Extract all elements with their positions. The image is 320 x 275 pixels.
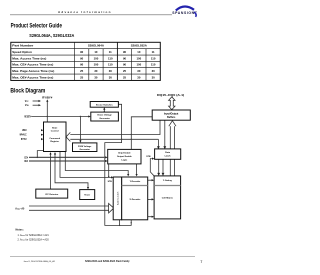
svg-text:110: 110 xyxy=(108,56,113,60)
svg-text:110: 110 xyxy=(151,63,156,67)
svg-text:PGM Voltage: PGM Voltage xyxy=(78,145,92,148)
svg-text:Chip Enable: Chip Enable xyxy=(118,153,131,155)
svg-text:90: 90 xyxy=(123,63,127,67)
svg-text:Register: Register xyxy=(50,140,59,143)
svg-text:Product Selector Guide: Product Selector Guide xyxy=(11,23,62,30)
svg-text:Block Diagram: Block Diagram xyxy=(10,87,45,94)
svg-text:30: 30 xyxy=(94,69,98,73)
svg-text:25: 25 xyxy=(80,69,84,73)
svg-text:State: State xyxy=(52,126,58,129)
svg-text:30: 30 xyxy=(109,75,113,79)
svg-text:Timer: Timer xyxy=(84,195,90,197)
svg-text:Output Enable: Output Enable xyxy=(117,155,133,158)
svg-text:S29GL064A, S29GL032A: S29GL064A, S29GL032A xyxy=(29,33,74,38)
svg-text:1. Amax for S29GL064A = A21: 1. Amax for S29GL064A = A21 xyxy=(18,234,50,237)
svg-text:Speed Option: Speed Option xyxy=(12,50,32,54)
svg-text:Buffers: Buffers xyxy=(167,116,176,119)
svg-text:Generator: Generator xyxy=(99,117,110,120)
svg-text:June 8, 2004 S29GL064A_00_A1: June 8, 2004 S29GL064A_00_A1 xyxy=(23,260,55,263)
svg-text:90: 90 xyxy=(80,63,84,67)
svg-text:OE#: OE# xyxy=(24,161,28,163)
svg-text:25: 25 xyxy=(80,75,84,79)
svg-text:Y-Decoder: Y-Decoder xyxy=(130,181,141,183)
svg-text:Amax–A0: Amax–A0 xyxy=(15,207,25,210)
svg-text:30: 30 xyxy=(152,75,156,79)
svg-text:BYTE#: BYTE# xyxy=(21,139,27,141)
svg-text:RY/BY#: RY/BY# xyxy=(42,97,53,99)
svg-text:10: 10 xyxy=(137,50,141,54)
svg-text:100: 100 xyxy=(137,63,142,67)
svg-text:S29GL032A: S29GL032A xyxy=(131,44,148,48)
svg-text:30: 30 xyxy=(137,75,141,79)
svg-text:Max. Page Access Time (ns): Max. Page Access Time (ns) xyxy=(12,69,54,73)
svg-text:Generator: Generator xyxy=(79,148,90,151)
svg-text:11: 11 xyxy=(152,50,155,54)
svg-text:90: 90 xyxy=(123,56,127,60)
svg-text:Address Latch: Address Latch xyxy=(116,191,119,205)
svg-text:DQ15–DQ0 (A-1): DQ15–DQ0 (A-1) xyxy=(157,94,185,97)
svg-text:25: 25 xyxy=(123,69,127,73)
svg-text:RESET#: RESET# xyxy=(24,116,31,118)
svg-text:X-Decoder: X-Decoder xyxy=(130,199,141,201)
svg-text:Latch: Latch xyxy=(165,154,171,157)
svg-text:100: 100 xyxy=(94,63,99,67)
svg-text:STB: STB xyxy=(108,181,113,183)
svg-text:VSS: VSS xyxy=(25,105,29,107)
svg-text:Command: Command xyxy=(49,138,60,140)
svg-text:11: 11 xyxy=(109,50,112,54)
svg-text:Max. CE# Access Time (ns): Max. CE# Access Time (ns) xyxy=(12,63,53,67)
svg-text:Max. Access Time (ns): Max. Access Time (ns) xyxy=(12,56,46,60)
svg-text:WP#/ACC: WP#/ACC xyxy=(20,134,27,137)
svg-text:SPANSION: SPANSION xyxy=(172,11,194,15)
svg-text:Cell Matrix: Cell Matrix xyxy=(162,196,174,199)
svg-text:CE#: CE# xyxy=(24,157,28,159)
svg-text:110: 110 xyxy=(108,63,113,67)
svg-text:30: 30 xyxy=(109,69,113,73)
svg-text:Input/Output: Input/Output xyxy=(164,113,179,116)
svg-text:Control: Control xyxy=(51,130,59,133)
svg-text:110: 110 xyxy=(151,56,156,60)
svg-text:S29GL064A and S29GL032A Flash: S29GL064A and S29GL032A Flash Family xyxy=(85,260,130,263)
svg-text:Advance Information: Advance Information xyxy=(58,10,111,14)
svg-text:Notes:: Notes: xyxy=(16,228,24,232)
svg-text:25: 25 xyxy=(123,75,127,79)
svg-text:Part Number: Part Number xyxy=(12,44,34,48)
svg-text:S29GL064A: S29GL064A xyxy=(88,44,105,48)
svg-text:Y-Gating: Y-Gating xyxy=(163,179,173,182)
svg-text:2. Amax for S29GL032A = A20: 2. Amax for S29GL032A = A20 xyxy=(18,239,50,242)
svg-text:100: 100 xyxy=(94,56,99,60)
svg-text:Sector Switches: Sector Switches xyxy=(96,103,114,106)
svg-text:Erase Voltage: Erase Voltage xyxy=(97,114,112,117)
svg-text:10: 10 xyxy=(94,50,98,54)
svg-text:90: 90 xyxy=(80,50,84,54)
svg-text:Max. OE# Access Time (ns): Max. OE# Access Time (ns) xyxy=(12,75,53,79)
svg-text:100: 100 xyxy=(137,56,142,60)
svg-text:90: 90 xyxy=(80,56,84,60)
svg-text:7: 7 xyxy=(200,260,202,264)
svg-text:STB: STB xyxy=(146,156,151,158)
svg-text:30: 30 xyxy=(152,69,156,73)
svg-text:Logic: Logic xyxy=(121,159,128,161)
svg-text:30: 30 xyxy=(94,75,98,79)
svg-text:Data: Data xyxy=(165,151,171,154)
svg-text:30: 30 xyxy=(137,69,141,73)
svg-text:90: 90 xyxy=(123,50,127,54)
svg-text:WE#: WE# xyxy=(22,130,27,132)
